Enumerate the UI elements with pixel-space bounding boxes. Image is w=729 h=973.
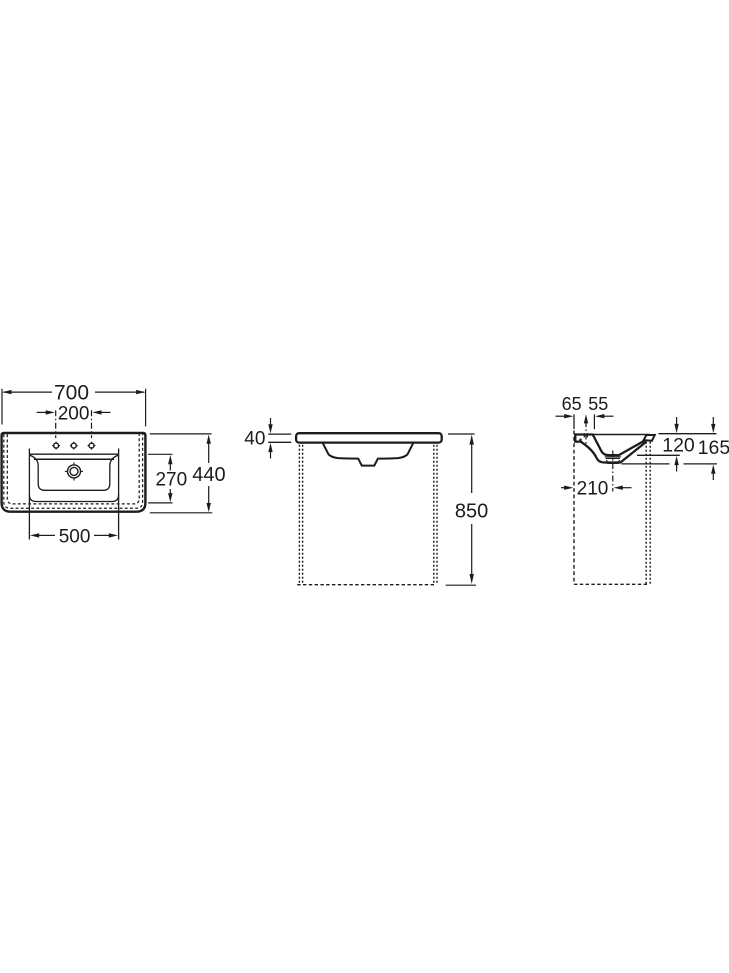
dimension 165 upper arrow <box>711 417 715 433</box>
cabinet bottom dashed line (front) <box>297 584 434 586</box>
svg-text:270: 270 <box>155 469 187 490</box>
dimension 700 left extension line <box>1 389 3 425</box>
svg-text:120: 120 <box>662 435 695 457</box>
drain centreline dash-dot (side) <box>612 451 614 492</box>
dimension 850 bottom arrowhead <box>470 574 474 584</box>
dimension 200 left arrow <box>37 410 55 414</box>
dimension 500 line with arrows <box>39 534 109 536</box>
svg-text:200: 200 <box>58 404 90 425</box>
dimension 120 bottom reference line <box>637 454 680 456</box>
cabinet bottom dashed line (side) <box>574 583 647 585</box>
svg-text:40: 40 <box>244 429 265 450</box>
dimension 40 upper arrow <box>268 418 272 434</box>
dimension 850 bottom extension line <box>446 584 476 586</box>
dimension 850 top arrowhead <box>470 435 474 445</box>
basin back rim line <box>29 453 118 455</box>
side profile front rim <box>575 434 580 442</box>
hidden cabinet edge inner dashed (plan) <box>7 434 139 504</box>
dimension 40 bottom extension line <box>268 441 291 443</box>
tap hole right <box>88 442 96 450</box>
tap centreline with up arrow <box>584 414 588 444</box>
svg-text:700: 700 <box>54 382 89 405</box>
svg-text:55: 55 <box>588 394 608 414</box>
dimension 270 top extension line <box>148 453 172 455</box>
basin bowl outer bottom outline <box>29 495 118 502</box>
dimension 270 bottom extension line <box>148 502 172 504</box>
dimension 165 bottom reference line left segment <box>622 463 670 465</box>
dimension 210 right arrow <box>614 486 632 490</box>
worktop slab front profile <box>296 433 442 442</box>
svg-text:65: 65 <box>562 394 582 414</box>
drain outer circle <box>68 465 81 478</box>
dimension 440 top arrowhead <box>207 435 211 444</box>
dimension 40 top extension line <box>268 433 291 435</box>
dimension 165 bottom reference line right segment <box>684 463 718 465</box>
side profile top front thick segment <box>574 433 593 435</box>
dimension 500 left extension line <box>28 449 30 540</box>
svg-text:500: 500 <box>59 526 91 547</box>
dimension 850 top extension line <box>448 433 475 435</box>
dimension 440 bottom arrowhead <box>207 503 211 512</box>
dimension 700 left arrowhead <box>2 390 11 394</box>
dimension 120/165 top extension line <box>659 433 717 435</box>
basin underside profile <box>323 443 413 465</box>
drain trap stack (section) <box>605 457 621 464</box>
svg-text:440: 440 <box>192 464 225 486</box>
dimension 120 lower arrow <box>674 456 678 472</box>
dimension 440 top extension line <box>150 433 212 435</box>
dimension 200 right centreline (dash-dot) <box>91 410 93 438</box>
cabinet front hidden dashed line (side) <box>573 431 575 585</box>
cabinet right side hidden dotted pair (front) <box>434 445 437 584</box>
tap hole section notch <box>584 433 587 437</box>
svg-text:210: 210 <box>577 479 609 500</box>
dimension 65 arrow <box>556 414 574 418</box>
dimension 40 lower arrow <box>268 443 272 459</box>
basin bowl back inner edge line <box>34 458 114 460</box>
dimension 55 extension tick <box>593 414 595 429</box>
dimension 270 bottom arrowhead <box>168 493 172 502</box>
dimension 500 right arrowhead <box>109 533 118 537</box>
dimension 210 left arrow <box>561 486 573 490</box>
sink outer rim (plan) <box>2 433 146 512</box>
dimension 850 line with arrows <box>471 442 473 579</box>
dimension 500 left arrowhead <box>30 533 39 537</box>
dimension 120 upper arrow <box>674 417 678 433</box>
supply pipe hidden dotted pair (side) <box>646 442 650 584</box>
dimension 700 right arrowhead <box>136 390 145 394</box>
dimension 700 line left segment with arrow <box>3 391 144 393</box>
bowl outer shell (section) <box>581 442 647 463</box>
basin bowl inner outline <box>30 455 119 490</box>
dimension 200 left centreline (dash-dot) <box>55 410 57 438</box>
drain inner circle <box>70 467 78 475</box>
dimension 65 extension tick <box>573 414 575 429</box>
tap hole left <box>52 442 60 450</box>
bowl inner surface (section) <box>593 435 645 456</box>
dimension 165 lower arrow <box>711 465 715 481</box>
drain crosshair ticks <box>65 462 83 480</box>
cabinet left side hidden dotted pair (front) <box>299 445 302 584</box>
hidden cabinet edge outer dashed (plan) <box>4 434 143 508</box>
dimension 200 right arrow <box>92 410 110 414</box>
tap hole centre <box>70 442 78 450</box>
side profile top edge <box>574 434 650 436</box>
dimension 55 arrow <box>595 414 613 418</box>
dimension 440 bottom extension line <box>150 512 213 514</box>
svg-text:165: 165 <box>698 437 729 459</box>
dimension 500 right extension line <box>118 449 120 540</box>
dimension 700 right extension line <box>145 389 147 427</box>
dimension 270 line with arrows <box>169 462 171 496</box>
back ledge wedge <box>644 435 655 441</box>
dimension 270 top arrowhead <box>168 455 172 464</box>
svg-text:850: 850 <box>455 500 488 522</box>
dimension 440 line with arrows <box>208 441 210 505</box>
